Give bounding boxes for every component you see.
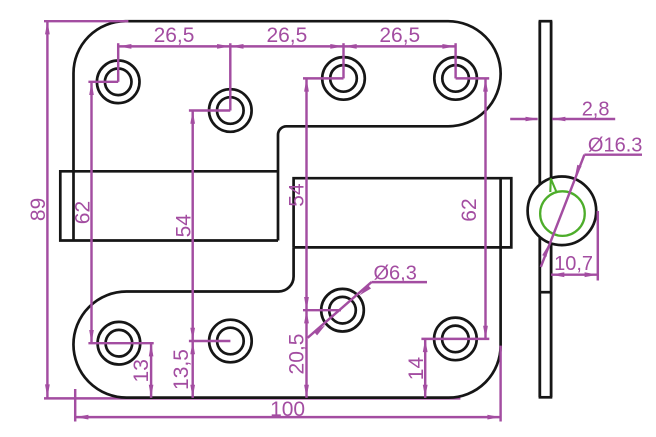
svg-text:Ø6,3: Ø6,3 [374,263,417,285]
svg-text:62: 62 [458,198,481,221]
svg-text:26,5: 26,5 [379,24,420,47]
svg-text:14: 14 [405,357,428,381]
svg-text:10,7: 10,7 [554,253,593,275]
svg-text:2,8: 2,8 [582,99,610,121]
svg-text:62: 62 [71,201,94,224]
svg-text:26,5: 26,5 [154,24,195,47]
svg-text:89: 89 [27,198,50,221]
svg-text:13: 13 [130,359,153,382]
svg-text:13,5: 13,5 [170,349,193,390]
svg-text:100: 100 [270,398,305,421]
svg-text:26,5: 26,5 [266,24,307,47]
svg-text:Ø16.3: Ø16.3 [588,135,642,157]
svg-text:20,5: 20,5 [286,334,309,375]
svg-text:54: 54 [286,183,309,207]
svg-text:54: 54 [172,214,195,238]
